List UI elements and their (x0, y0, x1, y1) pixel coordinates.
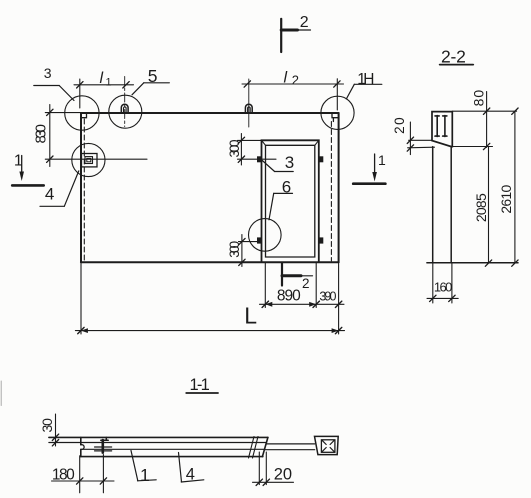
svg-text:3: 3 (285, 153, 294, 172)
svg-text:180: 180 (52, 467, 75, 484)
svg-text:l: l (284, 70, 288, 87)
svg-text:4: 4 (45, 185, 54, 204)
svg-text:390: 390 (319, 289, 336, 303)
svg-text:1: 1 (14, 152, 23, 169)
svg-text:890: 890 (277, 287, 301, 304)
svg-text:l: l (100, 70, 104, 87)
svg-text:1: 1 (140, 465, 150, 485)
svg-text:300: 300 (227, 241, 242, 258)
svg-text:2: 2 (300, 14, 309, 31)
svg-text:2: 2 (302, 276, 310, 291)
svg-text:300: 300 (227, 140, 242, 158)
svg-text:20: 20 (392, 117, 407, 134)
svg-text:2: 2 (292, 73, 299, 88)
svg-text:1: 1 (106, 77, 112, 89)
svg-text:1: 1 (378, 152, 386, 168)
svg-text:20: 20 (274, 466, 292, 484)
svg-text:L: L (244, 303, 257, 329)
svg-text:830: 830 (33, 124, 50, 144)
svg-text:80: 80 (471, 90, 487, 107)
svg-text:30: 30 (39, 418, 55, 433)
svg-text:4: 4 (186, 466, 195, 484)
svg-text:Н: Н (363, 71, 374, 88)
svg-text:160: 160 (434, 279, 453, 294)
svg-text:2085: 2085 (473, 193, 489, 222)
svg-text:6: 6 (282, 177, 291, 196)
svg-text:1-1: 1-1 (190, 376, 210, 394)
svg-text:2-2: 2-2 (441, 46, 466, 66)
svg-text:3: 3 (44, 65, 52, 81)
svg-text:2610: 2610 (498, 185, 514, 214)
svg-text:5: 5 (148, 66, 158, 86)
